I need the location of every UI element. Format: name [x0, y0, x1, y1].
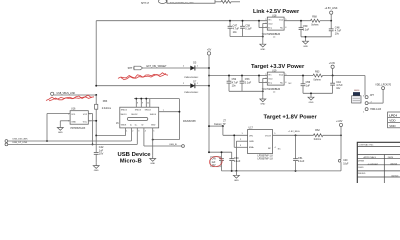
regulator U17 [248, 127, 282, 161]
diode D5 PMEG2005EJ [184, 63, 210, 79]
svg-text:DX2UB-5P8: DX2UB-5P8 [183, 121, 196, 123]
label NC pin4 [289, 83, 293, 85]
resistor R63 [313, 70, 365, 81]
svg-text:C53: C53 [245, 78, 250, 81]
sheet connector SHT 3 [128, 66, 143, 70]
svg-text:+1.8V: +1.8V [336, 120, 343, 123]
svg-text:C48: C48 [335, 26, 340, 29]
svg-text:USB_DM_LINK: USB_DM_LINK [12, 139, 28, 141]
capacitor C59 [299, 20, 310, 37]
svg-text:0.1uF: 0.1uF [298, 160, 305, 163]
title block [357, 142, 400, 184]
svg-text:R68: R68 [312, 16, 317, 19]
wire +2.5V input rail [96, 20, 267, 22]
capacitor C42 [94, 136, 104, 163]
svg-text:GND: GND [249, 141, 254, 143]
red annotation scribble under USB_VBUS_LINK [46, 95, 94, 101]
svg-text:10uF: 10uF [343, 163, 349, 165]
wire J6 pin1 VBUS [95, 128, 125, 137]
wire U17 GND pin [236, 139, 247, 171]
test point Z7 Fanout_TP [208, 120, 227, 135]
svg-text:USB Device: USB Device [118, 152, 152, 158]
svg-text:0ohms: 0ohms [314, 138, 322, 141]
wire J6 pin2 DM [8, 128, 131, 141]
svg-text:+2.5V_LINK: +2.5V_LINK [325, 7, 338, 10]
svg-text:1: 1 [363, 111, 364, 113]
svg-text:USB_ID: USB_ID [169, 144, 177, 146]
wire U18 EN tie [258, 20, 267, 28]
svg-text:SHLD1: SHLD1 [121, 114, 127, 116]
capacitor C47 [228, 20, 240, 37]
svg-text:C40: C40 [343, 160, 348, 162]
regulator U19 [262, 70, 288, 94]
svg-text:Micro-B: Micro-B [120, 159, 142, 165]
svg-text:2.0ohms: 2.0ohms [102, 107, 112, 110]
svg-text:FB3: FB3 [103, 100, 108, 103]
wire 3.3V gnd rail [229, 90, 264, 92]
wire U16 pin3 to DP [88, 114, 93, 146]
net label +1.8V_REG [288, 131, 300, 133]
wire 2.5V output [284, 20, 310, 22]
red annotation scribble over EXT_VIN wire [118, 73, 168, 80]
svg-text:USB_DP_LINK: USB_DP_LINK [12, 142, 27, 144]
net flag USB_ID [169, 144, 184, 147]
wire VBUS node to D7 [95, 83, 190, 87]
ground C56/C44 [308, 92, 314, 103]
net flag USB_DP_LINK [5, 142, 28, 146]
svg-text:GND: GND [260, 104, 265, 106]
wire 1.8V input cap rail [208, 151, 232, 153]
wire U17 VOUT [273, 134, 314, 136]
wire U17 VIN [223, 133, 248, 135]
capacitor C44 [330, 76, 343, 94]
svg-text:0.1uF: 0.1uF [303, 28, 310, 31]
svg-text:+3.3V: +3.3V [329, 62, 336, 65]
header JP7 pin 3 [363, 94, 374, 99]
svg-text:2: 2 [132, 131, 133, 133]
svg-text:C59: C59 [303, 25, 308, 28]
svg-text:3: 3 [138, 131, 139, 133]
svg-text:C51: C51 [298, 157, 303, 160]
svg-text:SHLD5: SHLD5 [121, 110, 127, 112]
svg-text:0.1uF: 0.1uF [234, 160, 241, 163]
svg-text:GND: GND [309, 102, 314, 104]
wire 3.3V output [284, 75, 313, 77]
ground U19 [260, 96, 266, 105]
svg-text:PMEG2005EJ: PMEG2005EJ [184, 92, 198, 94]
power flag +5V [207, 49, 212, 153]
wire VBUS_LINK [54, 94, 97, 96]
svg-text:GND: GND [234, 180, 239, 182]
svg-text:R62: R62 [315, 129, 320, 132]
capacitor C50 [229, 152, 240, 171]
svg-text:10: 10 [147, 102, 149, 104]
wire 3.3V to JP7 [364, 76, 366, 96]
wire U17 EN tie [233, 134, 247, 147]
svg-text:HDR-1x03: HDR-1x03 [370, 109, 381, 111]
svg-text:C52: C52 [232, 78, 237, 81]
svg-text:Target +1.8V Power: Target +1.8V Power [264, 114, 318, 120]
capacitor C49 [211, 151, 224, 171]
section title Link +2.5V Power [253, 9, 300, 15]
svg-text:SB16: SB16 [354, 90, 360, 92]
red annotation circle on C49 value [209, 156, 223, 168]
wire 3.3V cap gnd rail [303, 92, 333, 94]
resistor R62 [313, 129, 342, 141]
svg-text:0ohms: 0ohms [311, 24, 319, 27]
svg-text:SHLD6: SHLD6 [150, 114, 156, 116]
svg-text:VIN: VIN [249, 135, 253, 137]
svg-text:C42: C42 [99, 146, 104, 149]
ferrite bead FB3 [95, 95, 112, 136]
svg-text:GND: GND [303, 46, 308, 48]
wire J6 shield stubs [136, 99, 150, 108]
capacitor C56 [301, 75, 311, 94]
svg-text:ISSUED: ISSUED [358, 173, 366, 175]
wire J6 pin4 ID [144, 128, 182, 146]
svg-text:SHLD2: SHLD2 [131, 114, 137, 116]
svg-text:VCC: VCC [83, 122, 88, 124]
svg-text:1uF: 1uF [99, 149, 104, 152]
wire U19 EN tie [258, 75, 267, 83]
power flag +3.3V [329, 62, 336, 77]
svg-text:EXT_POWER_5V_LINK: EXT_POWER_5V_LINK [170, 2, 194, 4]
capacitor C53 [240, 75, 252, 92]
svg-text:GND: GND [151, 125, 156, 127]
wire JP7 pin2 to VDD flag [368, 90, 383, 103]
header JP7 pin 1 [363, 108, 382, 114]
regulator U18 [262, 15, 288, 39]
svg-text:GND: GND [94, 170, 99, 172]
svg-text:PMEG2005EJ: PMEG2005EJ [184, 77, 198, 79]
ground C59/C48 [303, 36, 309, 48]
svg-text:4.7uF: 4.7uF [232, 81, 239, 84]
svg-text:4/30/13: 4/30/13 [390, 163, 398, 165]
power table LPC4370 VDD [388, 112, 400, 128]
svg-text:9: 9 [142, 102, 143, 104]
svg-text:U16: U16 [71, 108, 76, 111]
capacitor C48 [329, 21, 342, 37]
svg-text:0.1uF: 0.1uF [245, 28, 252, 31]
svg-text:NC: NC [280, 27, 284, 29]
capacitor C51 [293, 135, 305, 171]
svg-text:Target +3.3V Power: Target +3.3V Power [251, 64, 305, 70]
wire +3.3V input rail [208, 75, 267, 77]
wire U18 GND pin [263, 23, 268, 41]
svg-text:TLV70233DBUR: TLV70233DBUR [262, 88, 281, 91]
header JP7 pin 2 [365, 102, 372, 105]
svg-text:C58: C58 [245, 25, 250, 28]
net label EXT_VIN_TARGET [147, 65, 168, 68]
power flag +1.8V [336, 120, 343, 135]
ground J6 [150, 156, 156, 165]
svg-text:TLV70250DBUR: TLV70250DBUR [262, 33, 281, 36]
svg-text:+1.8V_REG: +1.8V_REG [288, 131, 300, 133]
wire EXT_VIN to D5 [143, 65, 191, 68]
net flag USB_VBUS_LINK [51, 92, 76, 95]
svg-text:NC: NC [268, 148, 272, 150]
wire 2.5V cap gnd rail [301, 36, 331, 38]
svg-text:CHKD: CHKD [358, 167, 364, 169]
svg-text:NC: NC [289, 83, 293, 85]
resistor R68 [311, 16, 332, 27]
svg-text:+5V: +5V [207, 49, 212, 52]
svg-text:1: 1 [126, 131, 127, 133]
svg-text:LP5907MF-1.8: LP5907MF-1.8 [258, 155, 274, 157]
resistor (cut off at top) [221, 0, 240, 3]
svg-text:4: 4 [145, 131, 146, 133]
svg-text:Link +2.5V Power: Link +2.5V Power [253, 9, 300, 15]
svg-text:SHT 17: SHT 17 [141, 2, 150, 5]
svg-text:VBUS: VBUS [121, 125, 127, 127]
svg-text:1uF: 1uF [306, 84, 311, 87]
wire U16 pin4 VCC to VBUS line [88, 120, 97, 122]
wire U16 pin2 to DM [46, 114, 70, 142]
section title Target +1.8V Power [264, 114, 318, 120]
svg-text:VOUT: VOUT [265, 135, 272, 137]
section label USB Device Micro-B [118, 152, 152, 164]
wire U19 GND pin [263, 78, 268, 96]
svg-text:GND: GND [58, 132, 63, 134]
svg-text:GND: GND [71, 122, 76, 124]
svg-text:VDD: VDD [389, 124, 396, 128]
wire U16 pin1 to gnd [60, 121, 70, 127]
net flag VDD_LPC4370 [375, 84, 391, 89]
svg-text:0ohms: 0ohms [314, 78, 322, 81]
svg-text:0.1uF: 0.1uF [245, 81, 252, 84]
net flag USB_DM_LINK [5, 139, 28, 143]
svg-text:5: 5 [153, 131, 154, 133]
capacitor C58 [240, 20, 252, 37]
svg-text:SHLD3: SHLD3 [135, 110, 141, 112]
sheet connector SHT (cut off at top) [141, 0, 221, 5]
wire 1.8V gnd rail [222, 170, 342, 172]
svg-text:GND: GND [150, 163, 155, 165]
USB connector J6 body [116, 107, 196, 128]
label J6 pin numbers [126, 131, 154, 133]
svg-text:C44: C44 [336, 81, 341, 84]
IC U16 PRTR5V0U2X [68, 108, 91, 130]
svg-text:4.7uF: 4.7uF [233, 28, 240, 31]
svg-text:1uF: 1uF [212, 162, 217, 164]
wire 2.5V gnd rail [230, 36, 264, 38]
ground U18 [260, 42, 266, 51]
svg-text:4.7uF: 4.7uF [336, 84, 343, 87]
svg-text:GND: GND [260, 49, 265, 51]
svg-text:C50: C50 [234, 157, 239, 160]
svg-text:VDD_LPC4370: VDD_LPC4370 [375, 84, 391, 86]
svg-text:SHLD4: SHLD4 [145, 110, 151, 112]
svg-text:LPC4: LPC4 [389, 114, 397, 118]
wire J6 shield loop [134, 98, 180, 141]
svg-text:C49: C49 [212, 159, 217, 161]
capacitor C52 [227, 75, 239, 92]
svg-text:VDD: VDD [389, 119, 396, 123]
svg-text:D-: D- [130, 125, 132, 127]
wire riser from VBUS node to 2.5V rail [95, 21, 97, 86]
power flag +2.5V_LINK [325, 7, 338, 22]
ground C42 [93, 163, 99, 172]
svg-text:3/29/13: 3/29/13 [391, 175, 399, 177]
ground U17 input [233, 171, 239, 182]
ground U16 [57, 126, 63, 134]
wire J6 pin5 GND [152, 128, 154, 156]
diode D7 PMEG2005EJ [184, 81, 210, 94]
svg-text:8: 8 [137, 102, 138, 104]
svg-text:NC: NC [280, 82, 284, 84]
jumper shunt icon SB16 [352, 90, 361, 103]
svg-text:4.7uF: 4.7uF [335, 29, 342, 32]
wire J6 pin3 DP [8, 128, 137, 144]
svg-text:JP7: JP7 [370, 94, 375, 97]
svg-text:3: 3 [363, 95, 364, 97]
svg-text:10V: 10V [99, 152, 104, 155]
section title Target +3.3V Power [251, 64, 305, 70]
svg-text:R63: R63 [315, 70, 320, 73]
svg-text:C56: C56 [306, 81, 311, 84]
svg-text:C47: C47 [233, 25, 238, 28]
capacitor C40 [338, 135, 349, 171]
svg-text:DRWN: DRWN [358, 161, 365, 163]
svg-text:a.somogyi: a.somogyi [368, 163, 378, 165]
svg-text:PRTR5V0U2X: PRTR5V0U2X [71, 128, 86, 130]
svg-text:LP5907MF-1.8: LP5907MF-1.8 [258, 158, 274, 160]
